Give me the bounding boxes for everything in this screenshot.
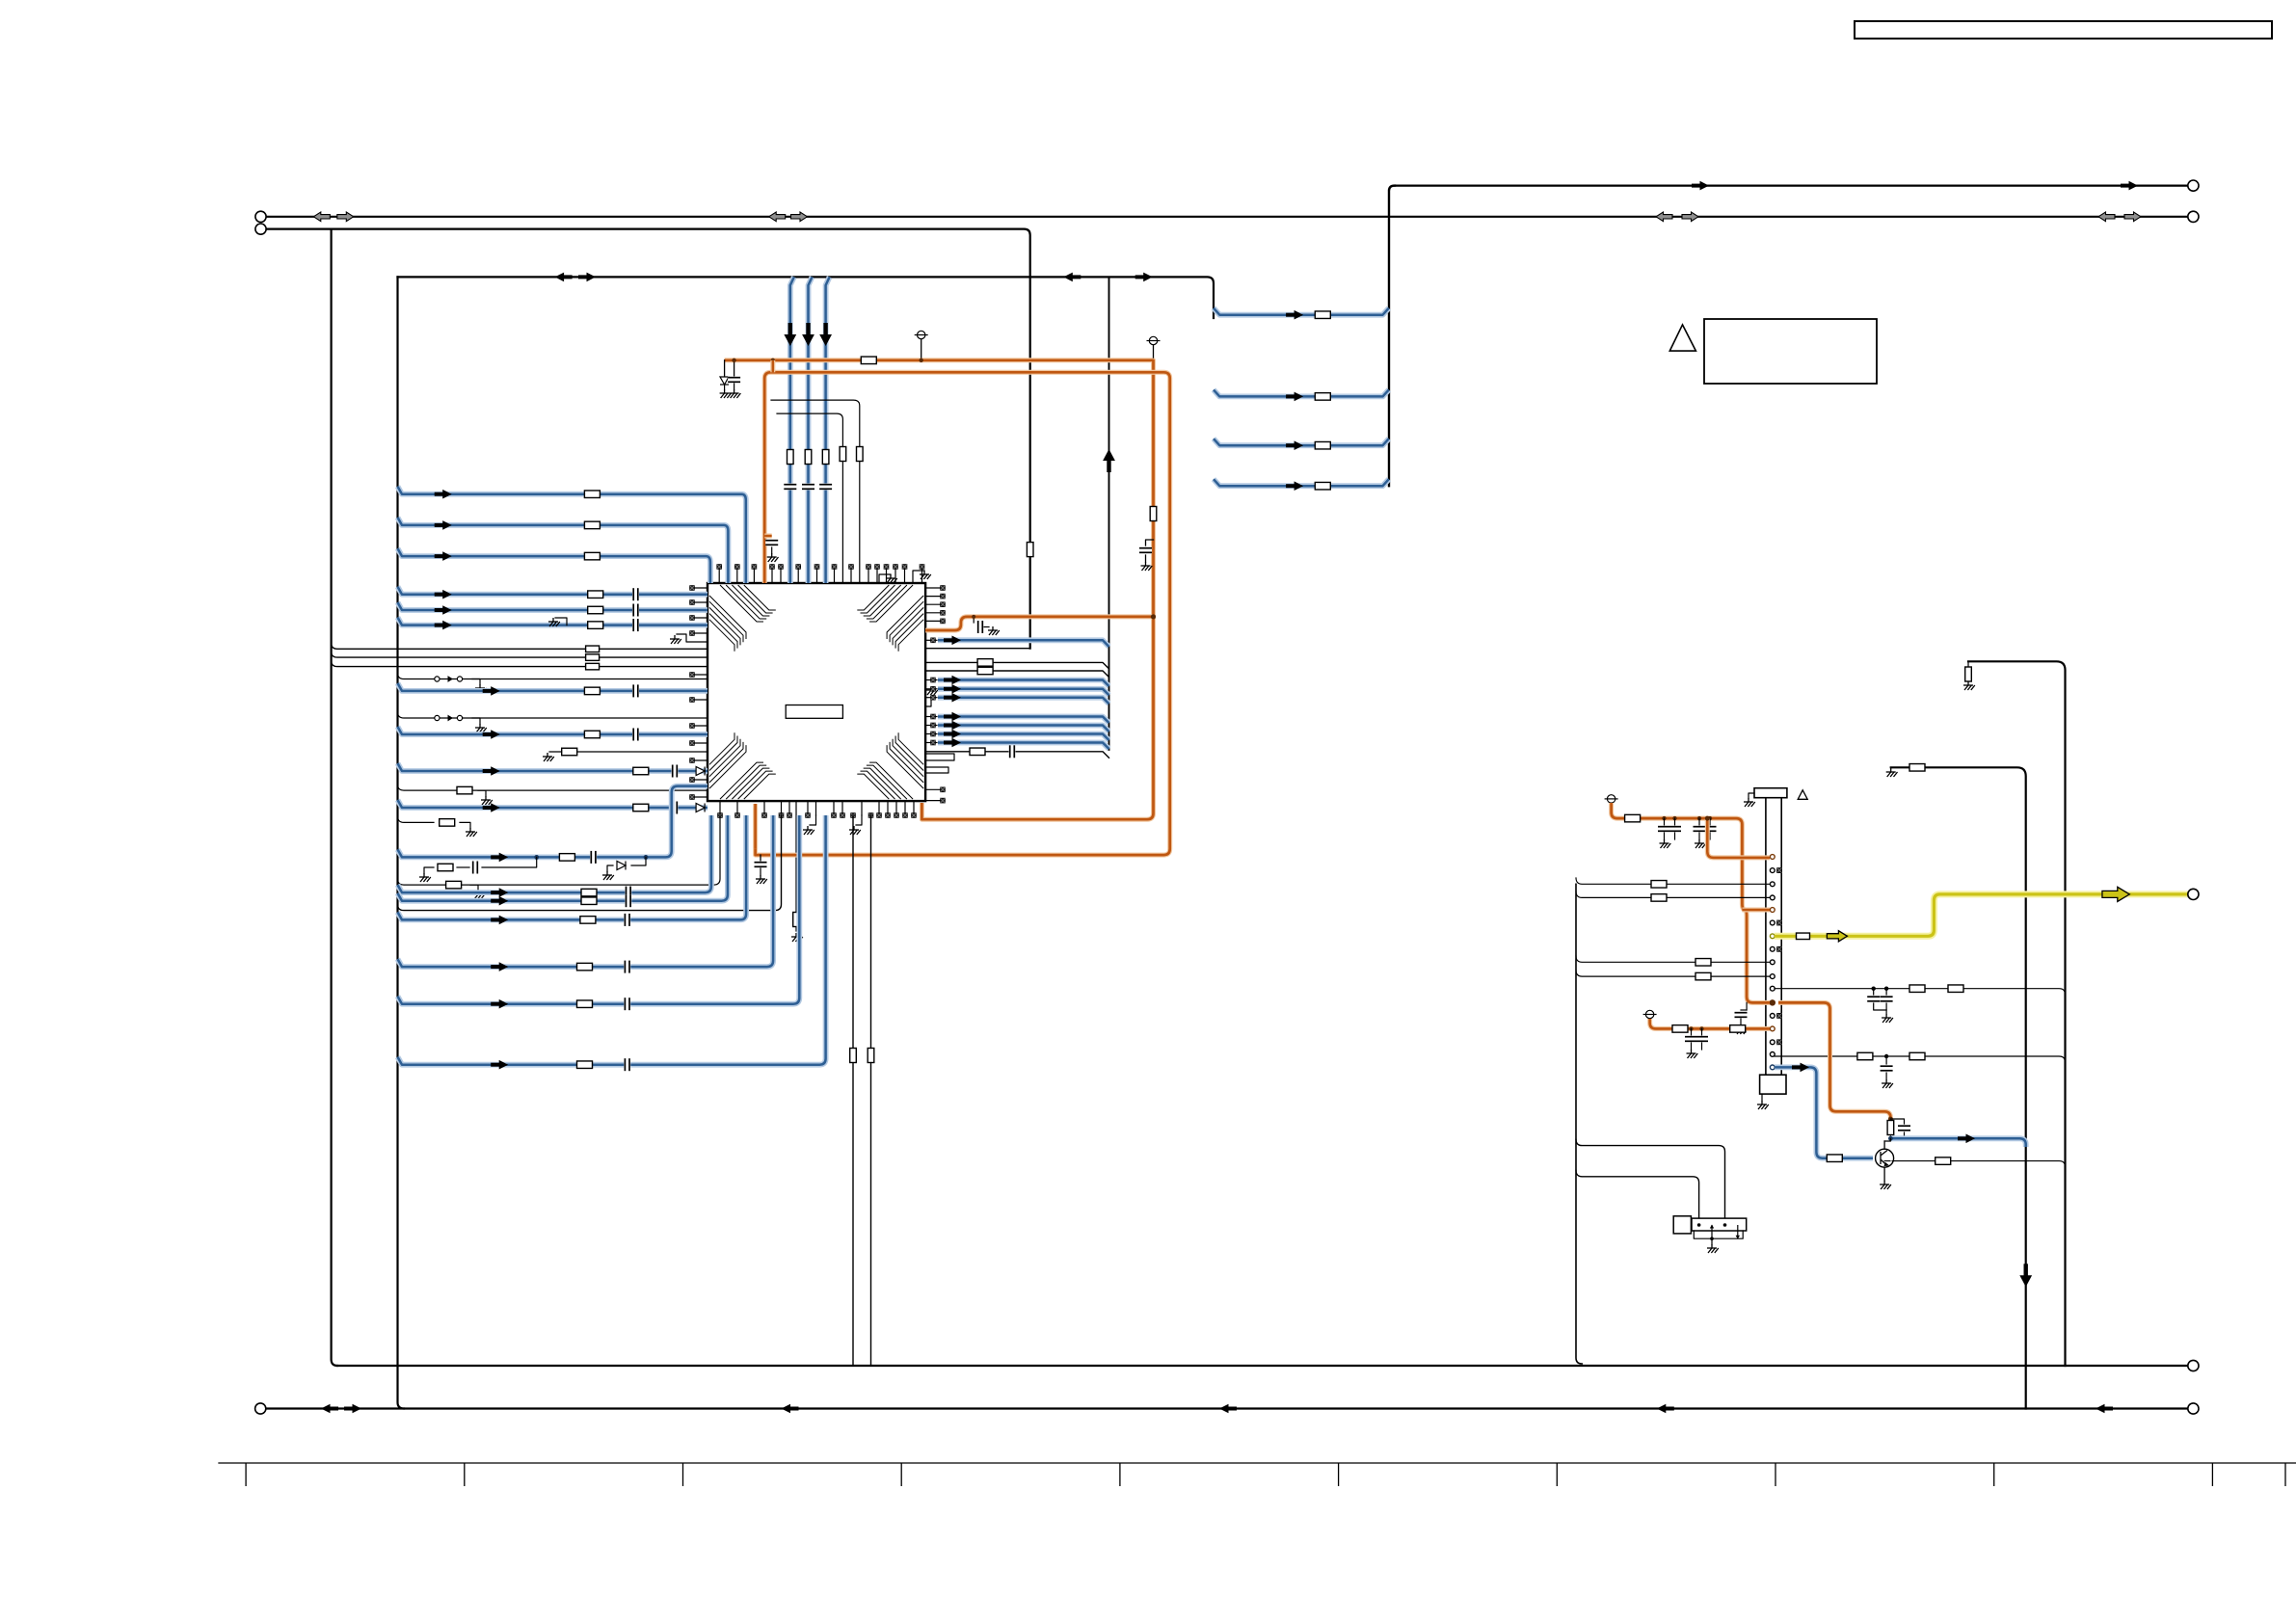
ground for x2101 stub <box>1886 768 1898 777</box>
wire blue row UR1 <box>1214 308 1389 315</box>
IC U1 corner pin fan bottom-left <box>709 732 776 799</box>
cap stub below pin12 junction <box>1746 1002 1748 1010</box>
wire black vertical above IC x874 <box>777 413 842 583</box>
wire blue vertical above IC 2 <box>809 277 813 583</box>
wire blue pin17 to transistor <box>1775 1067 1873 1157</box>
arrow on blue bus row 7 <box>944 738 961 748</box>
arrow on blue row UR3 <box>1286 440 1303 450</box>
capacitor stub on orange jog <box>973 617 974 623</box>
resistor on orange feed 1 <box>1625 814 1641 822</box>
capacitor on blue vertical 1 <box>784 484 796 491</box>
power feed stub at x955 <box>915 331 928 338</box>
wire blue left row 5 <box>398 602 708 610</box>
capacitor on blue vertical 3 <box>819 484 832 491</box>
resistor on blue row UR4 <box>1315 482 1330 490</box>
orange branch to pin5 <box>1742 908 1770 913</box>
orange wire pin12 to Q1 area <box>1778 1002 1890 1120</box>
resistor 1 row pin16 <box>1857 1052 1873 1060</box>
wire gray below row E <box>398 815 782 911</box>
wire blue left row 3 <box>398 548 710 583</box>
resistor collector Q1 <box>1887 1121 1894 1135</box>
wire connector row pin9 <box>1576 956 1770 962</box>
blue output wire from Q1 <box>1890 1138 2025 1147</box>
arrow on blue bus row 2 <box>944 684 961 694</box>
wire switch row 1 <box>398 674 708 679</box>
yellow arrow large <box>2102 887 2129 901</box>
yellow signal wire <box>1775 894 2188 936</box>
arrow down on blue vertical 2 <box>802 323 814 346</box>
connector CN1 bottom box <box>1760 1075 1786 1094</box>
wire right vertical x2101 <box>1891 767 2026 1408</box>
ground stub row y853 <box>460 822 470 828</box>
wire blue IC right bus row 6 <box>925 733 937 735</box>
arrow left on inner wire <box>555 273 573 282</box>
branch RC of row A <box>482 857 537 867</box>
wire black row pin11 to x2142 <box>1775 989 2066 998</box>
connector CN1 top cap <box>1754 788 1787 798</box>
IC U1 bottom ground pin A <box>810 815 816 825</box>
wire collector to node <box>1883 1141 1885 1149</box>
junction dot at power feed <box>920 359 923 362</box>
stub joining loops <box>770 360 775 373</box>
note box <box>1704 319 1877 384</box>
crystal X1 side box <box>1673 1216 1691 1234</box>
capacitor on blue vertical 2 <box>802 484 814 491</box>
wire blue IC right bus row 7 <box>925 742 937 744</box>
wire blue below row D <box>398 815 728 901</box>
resistor on vertical x1068 <box>1027 543 1033 557</box>
resistor 1 on orange feed 2 <box>1672 1025 1688 1033</box>
ground stub on left row 6 <box>555 618 567 625</box>
resistor 2 on orange feed 2 <box>1730 1025 1746 1033</box>
wire switch row 2 <box>398 712 708 718</box>
bus B1 double arrow right pair <box>1656 212 1698 222</box>
terminal circle bottom-right y1417 <box>2188 1360 2199 1370</box>
ground stub row y820 <box>478 790 486 796</box>
cap pair 2 on orange feed <box>1697 816 1701 820</box>
IC U1 body <box>707 583 925 801</box>
wire blue left row 1 <box>398 487 746 583</box>
terminal circle B1 right <box>2188 211 2199 222</box>
crystal internal arrows <box>1712 1225 1738 1238</box>
resistor on x2101 top wire <box>1909 764 1925 772</box>
pull resistor stub row y853 <box>398 816 435 822</box>
resistor stub row B <box>446 881 462 889</box>
wire bottom long horizontal y1417 <box>337 1365 2188 1367</box>
bus line B1 top horizontal <box>261 216 2194 218</box>
wire connector row pin10 <box>1576 971 1770 976</box>
arrow on blue pin17 <box>1792 1063 1809 1073</box>
capacitor stub on inner loop vertical <box>1146 540 1154 545</box>
wire black long vertical from IC x903 <box>870 815 872 1366</box>
wire vertical 1635 branch upper to crystal <box>1576 1139 1725 1225</box>
orange branch to pin1 <box>1707 818 1770 858</box>
wire blue left row 2 <box>398 518 729 583</box>
wire blue vertical above IC 1 <box>790 277 794 583</box>
resistor on inner loop top wire <box>861 357 876 364</box>
junction dot outer loop top-left <box>771 359 775 362</box>
arrow on IC right row 1 <box>944 636 961 646</box>
arrow right 2 on inner wire <box>1135 273 1153 282</box>
terminal circle B1 left <box>255 211 266 222</box>
ground under crystal <box>1710 1237 1714 1240</box>
cap pair 1 on orange feed <box>1662 816 1666 820</box>
corner top-right vertical x1441 <box>1389 186 1395 487</box>
warning triangle <box>1669 325 1695 351</box>
switch contacts row 1 <box>435 677 440 681</box>
IC U1 right pin stubs with X squares <box>925 587 941 589</box>
solder dots in crystal <box>1697 1223 1701 1227</box>
wire black vertical above IC x892 <box>771 400 860 583</box>
wire blue below row F <box>398 815 747 919</box>
bus B1 double arrow far-right pair <box>2098 212 2141 222</box>
power rail inner orange loop <box>725 360 1154 819</box>
arrow down on blue vertical 1 <box>784 323 796 346</box>
caps on orange feed 2 <box>1689 1026 1693 1030</box>
IC U1 right ground hook <box>925 700 931 706</box>
arrow on blue bus row 6 <box>944 730 961 739</box>
junction dot at pin12 <box>1770 999 1775 1005</box>
resistor pin4 <box>1651 894 1667 902</box>
IC U1 right NC loop stub 1 <box>925 754 954 760</box>
resistor on x903 <box>868 1049 874 1063</box>
resistor on gray left row 2 <box>586 654 600 661</box>
arrow on blue output <box>1958 1134 1975 1144</box>
wire gray IC right row bottom <box>925 752 1108 758</box>
bus line B3 bottom horizontal <box>260 1407 2193 1409</box>
resistor on blue row UR1 <box>1315 311 1330 319</box>
wire black row pin16 to x2142 <box>1775 1056 2066 1066</box>
wire blue IC right bus row 3 <box>925 697 937 699</box>
IC U1 bottom pin stubs <box>719 801 721 815</box>
pull resistor row y820 <box>398 785 708 790</box>
border ruler ticks <box>246 1463 2285 1486</box>
wire blue below row C <box>398 815 711 892</box>
IC U1 bottom ground pin B <box>856 815 862 825</box>
title box <box>1855 21 2272 39</box>
arrow on blue row UR1 <box>1286 310 1303 320</box>
orange wire from IC right pin with jog <box>925 617 1153 630</box>
junction dot orange jog <box>1151 614 1156 619</box>
wire emitter row to x2142 <box>1884 1161 2065 1170</box>
resistor pin3 <box>1651 881 1667 889</box>
wire gray left row 3 <box>332 661 707 667</box>
resistor on gray bottom row <box>970 748 985 756</box>
resistor on gray left row 3 <box>586 663 600 670</box>
wire blue left row 6 <box>398 618 708 625</box>
junction dot inner loop left <box>732 359 735 362</box>
power terminal orange feed 1 <box>1605 795 1618 803</box>
wire vertical x1635 <box>1576 884 1582 1364</box>
IC U1 part-number box <box>786 705 842 719</box>
wire blue left row 10 with diode <box>398 800 708 808</box>
wire left inner vertical x412 <box>398 277 405 1408</box>
junction dot orange at Q1 top <box>1888 1117 1893 1122</box>
ground stub row B <box>470 885 478 891</box>
arrow on top-right wire <box>2121 181 2138 191</box>
wire vertical x1150 from inner wire <box>1108 277 1110 750</box>
capacitor to ground on outer loop bottom at x789 <box>760 855 761 861</box>
capacitor on gray bottom row <box>1009 745 1016 758</box>
wire blue below row A <box>398 849 537 857</box>
arrow up on x1150 <box>1103 449 1115 472</box>
power rail outer orange loop <box>756 372 1170 855</box>
resistor on emitter row <box>1936 1157 1951 1165</box>
wire blue vertical above IC 3 <box>826 277 830 583</box>
wire blue IC right row 1 <box>925 639 937 641</box>
bus line B2 second horizontal <box>261 229 1030 649</box>
terminal circle yellow right <box>2188 889 2199 899</box>
zener diode to ground at inner loop left end <box>724 360 726 376</box>
ground at connector top <box>1749 793 1754 798</box>
IC U1 bottom pulldown resistor pin <box>795 801 797 931</box>
bus B3 arrow mid-left <box>782 1404 799 1414</box>
resistor on inner loop vertical <box>1150 507 1157 521</box>
diode on left row 9 <box>696 767 705 776</box>
power terminal orange feed 2 <box>1643 1010 1657 1018</box>
arrow down on blue vertical 3 <box>819 323 832 346</box>
wire blue below row I <box>398 815 826 1065</box>
wire blue left row 7 <box>398 683 708 691</box>
terminal circle B3 right <box>2188 1403 2199 1414</box>
wire black long vertical from IC x885 <box>852 815 854 1366</box>
wire gray left row 1 <box>332 643 707 649</box>
bus B1 double arrow left pair <box>313 212 354 222</box>
terminal circle B2 left <box>255 224 266 234</box>
wire blue row UR2 <box>1214 389 1389 396</box>
resistor 1 row pin11 <box>1909 985 1925 992</box>
IC U1 corner pin fan top-left <box>709 585 776 652</box>
arrow right on inner wire <box>578 273 596 282</box>
junction dot blue output <box>1888 1136 1893 1141</box>
wire blue IC right bus row 1 <box>925 679 937 681</box>
warning triangle small at connector <box>1798 790 1807 800</box>
resistor on blue row UR3 <box>1315 441 1330 449</box>
resistor pin9 <box>1695 959 1711 967</box>
wire thin IC right row to bus B2 <box>925 648 1030 650</box>
wire vertical 1635 branch lower to crystal <box>1576 1171 1699 1226</box>
IC U1 top ground hook pin 2 <box>913 571 924 583</box>
wire orange IC bottom to outer loop <box>753 808 758 849</box>
wire thin below row B <box>398 815 721 885</box>
bus B3 arrow pair left <box>321 1404 338 1414</box>
capacitor to ground at inner loop left end <box>734 360 735 376</box>
resistor 2 row pin16 <box>1909 1052 1925 1060</box>
wire collector node Q1 <box>1889 1135 1891 1138</box>
IC U1 bottom pin X squares <box>718 813 917 818</box>
orange feed 2 wire <box>1650 1019 1770 1028</box>
IC U1 top ground hook pin 1 <box>879 574 891 583</box>
resistor on blue row UR2 <box>1315 393 1330 401</box>
resistor on yellow wire <box>1797 933 1810 940</box>
junction dots and caps row pin11 <box>1872 986 1876 990</box>
wire emitter Q1 to ground <box>1883 1167 1885 1181</box>
crystal X1 body <box>1692 1218 1747 1231</box>
wire blue row UR3 <box>1214 439 1389 445</box>
wire gray IC right row 1 <box>925 662 1108 669</box>
wire blue IC right bus row 4 <box>925 716 937 718</box>
resistor stub on x2142 top wire <box>1967 661 1969 667</box>
bus B1 double arrow mid pair <box>769 212 808 222</box>
arrow on blue bus row 4 <box>944 712 961 722</box>
power terminal for inner loop <box>1147 336 1161 344</box>
resistor pin10 <box>1695 972 1711 980</box>
resistor on gray right row 1 <box>977 659 993 667</box>
transistor Q1 body <box>1876 1149 1894 1167</box>
IC U1 left pin stubs with X squares <box>692 587 707 589</box>
IC U1 left ground hook <box>677 634 707 642</box>
wire connector row pin3 <box>1576 878 1770 884</box>
arrow 2 on top-right wire <box>1692 181 1709 191</box>
capacitor on row A <box>590 851 597 864</box>
resistor on gray left row 1 <box>586 646 600 652</box>
IC U1 top pin stubs with X squares <box>718 567 720 583</box>
arrow on blue bus row 3 <box>944 693 961 703</box>
arrow on blue bus row 1 <box>944 676 961 685</box>
ground for x2142 stub <box>1963 681 1975 690</box>
junction cap row pin16 <box>1884 1054 1888 1058</box>
arrow down on x2101 <box>2019 1264 2032 1287</box>
wire blue IC right bus row 2 <box>925 688 937 690</box>
wire blue below row G <box>398 815 774 967</box>
capacitor stub on outer loop left vertical <box>764 534 772 539</box>
crystal X1 under-plate <box>1694 1231 1743 1238</box>
wire blue row UR4 <box>1214 479 1389 486</box>
resistor on x885 <box>850 1049 857 1063</box>
wire connector row pin4 <box>1576 891 1770 897</box>
resistor base Q1 <box>1827 1155 1842 1162</box>
wire left outer vertical x343 <box>332 229 337 1366</box>
wire top-right horizontal <box>1395 185 2188 187</box>
resistor on blue vertical 3 <box>822 450 829 465</box>
pull resistor row y780 <box>549 751 707 753</box>
wire right vertical x2142 <box>1968 661 2066 1366</box>
border ruler line <box>219 1462 2296 1464</box>
terminal circle top-right <box>2188 180 2199 191</box>
orange feed 1 wire <box>1612 803 1770 1002</box>
wire blue left row 4 <box>398 587 708 595</box>
IC U1 corner pin fan bottom-right <box>857 732 923 799</box>
resistor on blue vertical 2 <box>805 450 812 465</box>
bus B3 arrow mid <box>1219 1404 1237 1414</box>
wire blue left row 9 with diode <box>398 763 708 771</box>
resistor 2 row pin11 <box>1948 985 1963 992</box>
wire gray IC right row 2 <box>925 671 1108 678</box>
capacitor parallel Q1 <box>1890 1119 1904 1124</box>
bus B3 arrow mid-right <box>1657 1404 1674 1414</box>
terminal circle B3 left <box>255 1403 266 1414</box>
ground hook switch row 1 <box>472 679 480 685</box>
resistor on black vertical x874 <box>840 447 846 462</box>
IC U1 right NC loop stub 2 <box>925 767 948 773</box>
connector CN1 NC X squares <box>1777 868 1782 1045</box>
connector CN1 strip body <box>1766 798 1781 1077</box>
resistor on gray right row 2 <box>977 667 993 675</box>
wire gray left row 2 <box>332 652 707 657</box>
resistor on blue vertical 1 <box>788 450 794 465</box>
resistor on black vertical x892 <box>857 447 864 462</box>
ground under connector bottom box <box>1761 1094 1763 1101</box>
arrow on blue row UR4 <box>1286 481 1303 491</box>
arrow on blue row UR2 <box>1286 392 1303 402</box>
arrow left 2 on inner wire <box>1063 273 1081 282</box>
connector CN1 pin circles <box>1770 855 1775 1070</box>
diode on left row 10 <box>696 804 705 812</box>
IC U1 corner pin fan top-right <box>857 585 923 652</box>
diode branch of row A <box>644 855 649 860</box>
arrow on blue bus row 5 <box>944 721 961 731</box>
junction dot row A <box>534 855 539 860</box>
wire blue below row H <box>398 815 800 1004</box>
switch contacts row 2 <box>435 715 440 720</box>
resistor on row A <box>559 854 574 862</box>
wire blue left row 8 <box>398 727 708 734</box>
ground hook switch row 2 <box>472 718 480 724</box>
wire blue IC right bus row 5 <box>925 725 937 727</box>
bus B3 arrow right <box>2096 1404 2113 1414</box>
yellow arrow small <box>1827 931 1847 942</box>
wire inner top horizontal y287 <box>398 277 1215 318</box>
